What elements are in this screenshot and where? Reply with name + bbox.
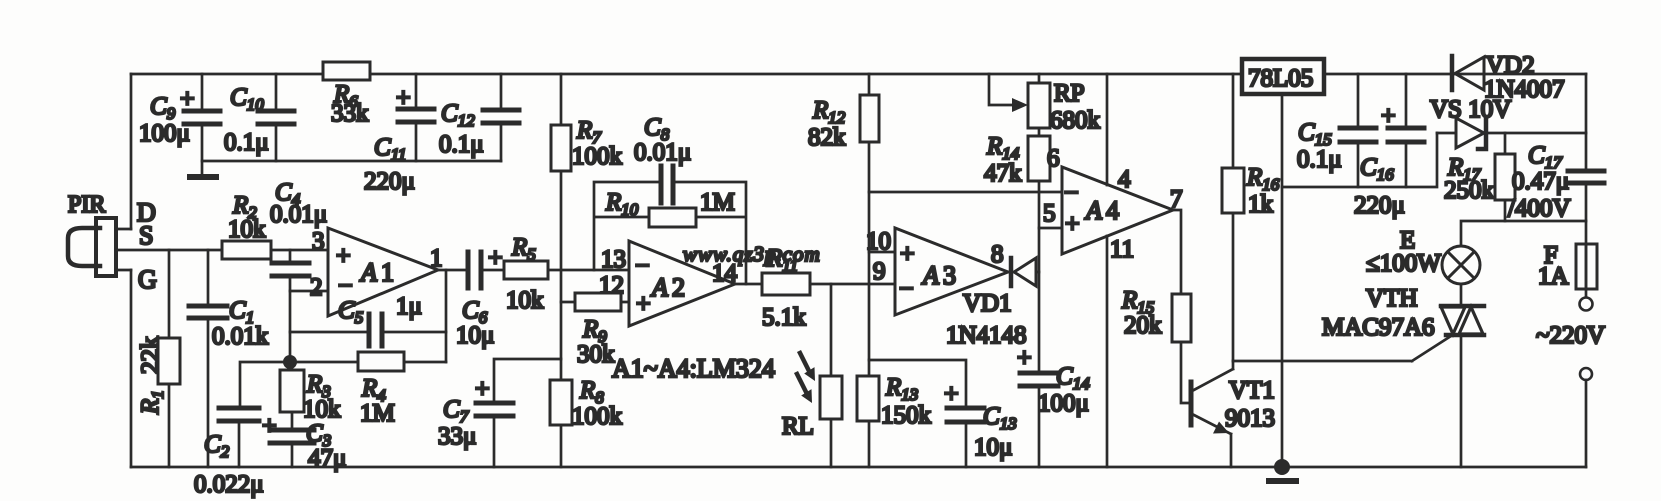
- wire A1 inverting input: [290, 291, 328, 362]
- capacitor C15: [1297, 74, 1376, 187]
- svg-text:250k: 250k: [1444, 177, 1495, 204]
- svg-text:3: 3: [943, 261, 956, 290]
- svg-text:2: 2: [310, 274, 323, 301]
- svg-text:RP: RP: [1054, 80, 1085, 107]
- PIR sensor: [68, 192, 157, 294]
- resistor R17: [1444, 133, 1515, 221]
- zener diode VS: [1430, 96, 1586, 149]
- svg-text:MAC97A6: MAC97A6: [1322, 314, 1435, 341]
- pin 14 label A2: [712, 260, 738, 287]
- svg-text:0.1μ: 0.1μ: [1297, 146, 1342, 173]
- wire PIR source line: [116, 249, 328, 252]
- svg-text:+: +: [636, 289, 651, 318]
- svg-text:+: +: [1381, 101, 1396, 130]
- svg-text:S: S: [139, 221, 153, 250]
- svg-text:10k: 10k: [303, 396, 341, 423]
- svg-text:~220V: ~220V: [1536, 322, 1605, 349]
- svg-text:−: −: [635, 251, 650, 280]
- capacitor C14: [1017, 343, 1090, 467]
- svg-text:100μ: 100μ: [139, 120, 190, 147]
- resistor R7: [551, 74, 623, 380]
- pin 5 label A4: [1043, 200, 1056, 227]
- svg-text:+: +: [180, 84, 195, 113]
- wire A3 noninverting input: [869, 251, 895, 254]
- op-amp A2: [629, 241, 735, 326]
- svg-text:VD2: VD2: [1486, 52, 1535, 79]
- svg-text:6: 6: [1047, 145, 1060, 172]
- svg-text:33μ: 33μ: [438, 423, 476, 450]
- resistor R10: [605, 189, 735, 227]
- svg-text:−: −: [338, 271, 353, 300]
- capacitor C8: [634, 114, 691, 203]
- pin 13 label A2: [601, 246, 626, 273]
- svg-text:47k: 47k: [984, 160, 1022, 187]
- svg-text:−: −: [899, 274, 914, 303]
- svg-text:13: 13: [601, 246, 626, 273]
- op-amp A3: [895, 228, 1008, 315]
- svg-text:100μ: 100μ: [1038, 390, 1089, 417]
- node main ground junction: [1274, 459, 1290, 475]
- svg-text:3: 3: [312, 228, 325, 255]
- resistor R11: [762, 245, 810, 331]
- node A1 feedback junction: [283, 355, 297, 369]
- svg-text:+: +: [396, 83, 411, 112]
- capacitor C5: [290, 293, 446, 346]
- svg-text:0.1μ: 0.1μ: [439, 131, 484, 158]
- capacitor C6: [456, 243, 504, 349]
- svg-text:0.01μ: 0.01μ: [270, 201, 327, 228]
- svg-text:10μ: 10μ: [456, 322, 494, 349]
- svg-text:20k: 20k: [1124, 312, 1162, 339]
- svg-text:−: −: [1064, 178, 1079, 207]
- svg-text:A: A: [921, 261, 939, 290]
- svg-text:4: 4: [1106, 196, 1119, 225]
- resistor R5: [504, 234, 548, 314]
- wire R11 to A3 pin9: [810, 283, 895, 286]
- svg-text:A1~A4:LM324: A1~A4:LM324: [612, 354, 775, 383]
- lamp E: [1366, 227, 1480, 306]
- svg-text:8: 8: [991, 241, 1004, 268]
- wire left frame edge: [130, 74, 133, 467]
- svg-text:22k: 22k: [137, 336, 164, 374]
- svg-text:100k: 100k: [572, 143, 623, 170]
- svg-text:+: +: [944, 379, 959, 408]
- capacitor C16: [1354, 74, 1424, 219]
- svg-text:10k: 10k: [506, 287, 544, 314]
- resistor R12: [808, 74, 879, 376]
- wire bottom ground rail: [131, 466, 1586, 469]
- label AC mains: [1536, 322, 1605, 349]
- svg-text:78L05: 78L05: [1248, 65, 1313, 92]
- svg-text:VTH: VTH: [1366, 285, 1417, 312]
- wire top supply rail: [131, 73, 1586, 76]
- wire filter ground bus: [202, 160, 501, 163]
- svg-text:RL: RL: [782, 413, 814, 440]
- capacitor C10: [224, 74, 294, 161]
- pin 4 label A4: [1118, 166, 1131, 193]
- svg-text:5: 5: [1043, 200, 1056, 227]
- svg-text:A: A: [359, 258, 377, 287]
- svg-text:VT1: VT1: [1229, 377, 1275, 404]
- diode VD2: [1452, 52, 1565, 103]
- regulator U1 78L05: [1242, 59, 1324, 94]
- svg-text:9013: 9013: [1225, 405, 1275, 432]
- wire PIR drain stub: [116, 228, 131, 231]
- svg-text:1N4148: 1N4148: [946, 322, 1027, 349]
- diode VD1: [946, 258, 1039, 349]
- svg-text:9: 9: [873, 258, 886, 285]
- pin 11 label A4: [1110, 236, 1134, 263]
- wire A4 inverting reference line: [869, 191, 1062, 194]
- label A1-A4 LM324: [612, 354, 775, 383]
- svg-text:+: +: [475, 374, 490, 403]
- wire A4 noninverting input: [1039, 227, 1062, 230]
- pin 3 label A1: [312, 228, 325, 255]
- svg-text:VS 10V: VS 10V: [1430, 96, 1511, 123]
- svg-text:10k: 10k: [228, 216, 266, 243]
- capacitor C1: [189, 250, 269, 467]
- svg-text:G: G: [138, 265, 157, 294]
- ground symbol bottom: [1269, 478, 1296, 484]
- op-amp A1: [328, 228, 438, 316]
- svg-text:1: 1: [381, 258, 394, 287]
- svg-text:1A: 1A: [1538, 263, 1569, 290]
- pin 8 label A3: [991, 241, 1004, 268]
- resistor R6: [323, 62, 370, 127]
- svg-text:1M: 1M: [700, 189, 735, 216]
- svg-text:10μ: 10μ: [974, 434, 1012, 461]
- svg-text:100k: 100k: [572, 403, 623, 430]
- svg-text:A: A: [1084, 196, 1102, 225]
- op-amp A4: [1062, 167, 1173, 254]
- capacitor C3: [262, 411, 346, 472]
- wire right frame edge: [1585, 74, 1588, 467]
- svg-text:PIR: PIR: [68, 192, 105, 218]
- wire 78L05 ground pin: [1281, 94, 1284, 467]
- ground below C9: [190, 174, 216, 180]
- pin 2 label A1: [310, 274, 323, 301]
- resistor R1: [137, 250, 180, 467]
- pin 10 label A3: [866, 228, 891, 255]
- capacitor C9: [139, 74, 220, 175]
- svg-text:150k: 150k: [881, 402, 932, 429]
- svg-text:220μ: 220μ: [364, 168, 415, 195]
- svg-text:+: +: [1017, 343, 1032, 372]
- capacitor C12: [439, 74, 519, 161]
- pin 6 label A4: [1047, 145, 1060, 172]
- watermark www.qz3p.com: [683, 242, 821, 266]
- svg-text:www.qz3p.com: www.qz3p.com: [683, 242, 821, 266]
- wire A2 output: [735, 283, 762, 286]
- wire R10 C8 feedback loop: [594, 182, 746, 284]
- resistor R14: [984, 133, 1050, 373]
- capacitor C7: [438, 359, 561, 467]
- svg-text:1M: 1M: [360, 400, 395, 427]
- svg-text:+: +: [488, 243, 503, 272]
- svg-text:680k: 680k: [1050, 107, 1101, 134]
- wire low voltage ground bus: [1282, 133, 1437, 187]
- wire R5 to A2 pin13: [548, 269, 629, 272]
- resistor R13: [857, 374, 932, 467]
- svg-text:2: 2: [672, 273, 685, 302]
- svg-text:4: 4: [1118, 166, 1131, 193]
- svg-text:0.022μ: 0.022μ: [194, 471, 264, 498]
- resistor R2: [222, 192, 271, 259]
- triac VTH: [1233, 285, 1484, 467]
- wire A1 output feedback drop: [445, 270, 448, 362]
- svg-text:30k: 30k: [577, 341, 615, 368]
- wire A4 output: [1173, 210, 1181, 294]
- svg-text:≤100W: ≤100W: [1366, 250, 1441, 277]
- capacitor C17: [1508, 142, 1604, 222]
- svg-text:0.47μ: 0.47μ: [1512, 168, 1569, 195]
- svg-text:+: +: [336, 241, 351, 270]
- svg-text:5.1k: 5.1k: [762, 304, 806, 331]
- resistor R3: [280, 362, 341, 430]
- resistor R4: [290, 352, 446, 427]
- wire A1 output: [438, 269, 467, 272]
- svg-text:+: +: [262, 411, 277, 440]
- capacitor C4: [270, 179, 327, 291]
- wire A4 negative supply pin: [1106, 236, 1109, 467]
- svg-text:33k: 33k: [331, 100, 369, 127]
- pin 1 label A1: [430, 245, 443, 272]
- svg-text:0.01μ: 0.01μ: [634, 139, 691, 166]
- capacitor C2: [194, 362, 290, 498]
- svg-text:+: +: [1065, 209, 1080, 238]
- svg-text:+: +: [900, 239, 915, 268]
- svg-text:82k: 82k: [808, 124, 846, 151]
- capacitor C13: [869, 360, 1017, 467]
- svg-text:1k: 1k: [1248, 191, 1274, 218]
- resistor R15: [1121, 287, 1191, 403]
- photoresistor RL: [782, 284, 842, 467]
- terminal AC upper: [1580, 298, 1593, 311]
- terminal AC lower: [1580, 368, 1592, 380]
- wire PIR gate stub: [116, 269, 131, 272]
- resistor R9: [561, 293, 629, 368]
- svg-text:47μ: 47μ: [308, 445, 346, 472]
- transistor VT1: [1191, 361, 1275, 467]
- fuse F: [1538, 242, 1597, 290]
- svg-text:A: A: [650, 273, 668, 302]
- wire A4 positive supply pin: [1106, 74, 1109, 185]
- svg-text:11: 11: [1110, 236, 1134, 263]
- resistor R16: [1222, 74, 1280, 361]
- pin 9 label A3: [873, 258, 886, 285]
- svg-text:/400V: /400V: [1508, 195, 1571, 222]
- pin 12 label A2: [599, 272, 624, 299]
- svg-text:220μ: 220μ: [1354, 192, 1405, 219]
- potentiometer RP: [989, 74, 1101, 136]
- svg-text:1: 1: [430, 245, 443, 272]
- svg-text:12: 12: [599, 272, 624, 299]
- capacitor C11: [364, 74, 434, 195]
- svg-text:0.1μ: 0.1μ: [224, 129, 269, 156]
- svg-text:1μ: 1μ: [396, 293, 422, 320]
- svg-text:VD1: VD1: [963, 290, 1012, 317]
- pin 7 label A4: [1170, 186, 1183, 213]
- resistor R8: [550, 377, 623, 467]
- wire lamp feed: [1461, 221, 1586, 246]
- svg-text:0.01k: 0.01k: [212, 323, 269, 350]
